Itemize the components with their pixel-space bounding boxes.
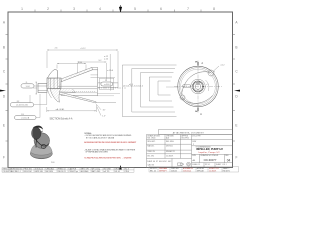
svg-text:5: 5 xyxy=(134,7,136,11)
svg-text:C/N 4: C/N 4 xyxy=(125,171,129,173)
svg-text:NX10 PLM: NX10 PLM xyxy=(24,171,32,173)
svg-text:⌀.500: ⌀.500 xyxy=(104,83,110,86)
svg-text:SHEET 1: SHEET 1 xyxy=(223,168,230,170)
svg-text:CD-30071: CD-30071 xyxy=(209,170,216,172)
svg-text:CD-30071: CD-30071 xyxy=(166,156,173,158)
svg-text:BG. 4711: BG. 4711 xyxy=(148,156,155,158)
svg-text:BG 19F10: BG 19F10 xyxy=(46,171,53,173)
svg-text:DS 04-21: DS 04-21 xyxy=(150,168,157,170)
svg-text:WT 0.12 kg: WT 0.12 kg xyxy=(92,169,100,171)
svg-text:⌀A .08 A1: ⌀A .08 A1 xyxy=(56,108,66,111)
svg-text:REF. DWG: REF. DWG xyxy=(166,141,175,143)
svg-text:NEW 04 37 6001/6C 002: NEW 04 37 6001/6C 002 xyxy=(147,161,171,163)
svg-text:SECTION/Schnitt A-A: SECTION/Schnitt A-A xyxy=(50,117,73,120)
svg-text:OF SMPNE AND GROOVES: OF SMPNE AND GROOVES xyxy=(85,150,108,153)
svg-text:DOC-TYPE: DOC-TYPE xyxy=(192,136,200,138)
svg-text:7: 7 xyxy=(187,7,189,11)
svg-text:3: 3 xyxy=(73,7,75,11)
svg-text:B: B xyxy=(235,45,237,49)
svg-text:REL. 04: REL. 04 xyxy=(150,170,156,172)
svg-text:MG. 19500: MG. 19500 xyxy=(148,138,156,140)
svg-text:B: B xyxy=(3,45,5,49)
svg-text:2019-05-14: 2019-05-14 xyxy=(183,170,191,172)
svg-text:⌀.75: ⌀.75 xyxy=(184,85,188,88)
svg-text:F: F xyxy=(3,155,5,159)
svg-text:REL DS 21: REL DS 21 xyxy=(58,171,66,173)
svg-text:A: A xyxy=(200,112,202,116)
svg-text:USED ON: USED ON xyxy=(148,151,156,153)
svg-text:15°: 15° xyxy=(102,109,105,111)
svg-text:PROJ 4711: PROJ 4711 xyxy=(24,169,32,171)
svg-text:2: 2 xyxy=(193,144,194,146)
svg-text:SCHAUFELFLACHEN MUSSEN FREI SE: SCHAUFELFLACHEN MUSSEN FREI SEIN - GRATE… xyxy=(84,156,132,159)
svg-text:ATTACHMENTS- DOKUMENT: ATTACHMENTS- DOKUMENT xyxy=(173,131,205,134)
svg-text:FREIG. 04: FREIG. 04 xyxy=(58,169,66,171)
svg-text:Impeller, Pumpe 1/2: Impeller, Pumpe 1/2 xyxy=(199,151,221,154)
svg-text:2x: 2x xyxy=(105,80,107,82)
svg-text:1.5°: 1.5° xyxy=(102,115,106,117)
svg-text:E: E xyxy=(3,123,5,127)
svg-text:CD-30077: CD-30077 xyxy=(204,158,217,162)
svg-text:F: F xyxy=(236,155,238,159)
svg-text:04: 04 xyxy=(227,158,231,162)
svg-text:BY 3D DATA 3D-MODT TALMA: BY 3D DATA 3D-MODT TALMA xyxy=(86,136,115,139)
svg-text:DIN 6784: DIN 6784 xyxy=(115,169,122,171)
svg-text:2019-05-14: 2019-05-14 xyxy=(35,169,43,171)
svg-text:⌀2.0 ⌀1.7⌀1.4 ⌀1.1⌀1.0: ⌀2.0 ⌀1.7⌀1.4 ⌀1.1⌀1.0 xyxy=(123,85,143,88)
svg-text:⌀.12 A: ⌀.12 A xyxy=(107,69,113,72)
svg-text:1: 1 xyxy=(21,7,23,11)
svg-text:mK TOL: mK TOL xyxy=(104,171,110,173)
svg-text:SIZE: SIZE xyxy=(192,155,196,157)
svg-text:DIN 9021: DIN 9021 xyxy=(166,145,173,147)
svg-text:DWG 6001 6C: DWG 6001 6C xyxy=(12,169,23,171)
svg-text:ED 04 R1: ED 04 R1 xyxy=(223,170,230,172)
svg-text:E: E xyxy=(235,123,237,127)
svg-text:IMPELLER, PUMP 1/2: IMPELLER, PUMP 1/2 xyxy=(196,147,223,151)
svg-text:A: A xyxy=(201,61,203,65)
svg-text:4: 4 xyxy=(99,7,101,11)
svg-text:GEPRUFT: GEPRUFT xyxy=(159,170,167,172)
svg-text:AUSSENGEOMETRIE UND BOHRUNGEN: AUSSENGEOMETRIE UND BOHRUNGEN SIND 3D-MO… xyxy=(84,141,137,144)
svg-text:GEPR. MG: GEPR. MG xyxy=(35,171,44,173)
svg-text:2019-05: 2019-05 xyxy=(171,170,177,172)
svg-text:W10: W10 xyxy=(51,162,55,164)
svg-text:WT 0.1: WT 0.1 xyxy=(205,164,210,166)
svg-text:2: 2 xyxy=(47,7,49,11)
svg-text:REV. HIST.: REV. HIST. xyxy=(148,141,156,143)
svg-text:⌀1.415/1.410: ⌀1.415/1.410 xyxy=(16,104,29,107)
svg-text:SHEET 1 OF 1: SHEET 1 OF 1 xyxy=(216,164,227,166)
svg-text:⌀1.112 A: ⌀1.112 A xyxy=(21,117,30,120)
svg-text:ED. 04: ED. 04 xyxy=(115,171,120,173)
svg-text:6: 6 xyxy=(160,7,162,11)
svg-text:CHECKED: CHECKED xyxy=(166,136,175,138)
svg-text:DRW: DRW xyxy=(192,141,196,143)
svg-text:ISO 2768: ISO 2768 xyxy=(104,169,111,171)
svg-text:8: 8 xyxy=(213,7,215,11)
svg-text:SHT 1 OF 1: SHT 1 OF 1 xyxy=(81,169,90,171)
svg-text:⌀.3: ⌀.3 xyxy=(206,83,208,86)
svg-text:002 REL 1:1: 002 REL 1:1 xyxy=(12,171,21,173)
svg-text:BG 19F10: BG 19F10 xyxy=(182,138,189,140)
svg-text:3-C: 3-C xyxy=(98,60,102,62)
svg-text:CHKD MG: CHKD MG xyxy=(171,168,179,170)
